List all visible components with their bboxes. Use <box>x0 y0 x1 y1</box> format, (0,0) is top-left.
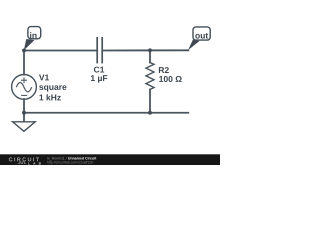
wire left branch upper (in node to V1) <box>23 51 25 75</box>
wire left branch lower (V1 to bottom wire) <box>23 99 25 113</box>
node out flag <box>188 27 210 50</box>
label R2 <box>159 67 169 73</box>
label C1 value 1 uF <box>91 75 107 83</box>
node junction dot bottom-right at R2 <box>148 111 152 115</box>
ground <box>13 122 36 132</box>
svg-text:http://circuitlab.com/c2zwf12b: http://circuitlab.com/c2zwf12b <box>47 161 94 165</box>
voltage source V1 <box>12 75 37 100</box>
footer CircuitLab logo <box>9 157 41 164</box>
node A junction dot top-left <box>22 48 26 52</box>
wire bottom <box>24 112 188 114</box>
label V1 value square <box>39 85 66 91</box>
wire resistor bottom lead <box>149 90 151 113</box>
node in flag <box>24 27 41 51</box>
label R2 value 100 Ohm <box>159 76 181 82</box>
node junction dot bottom-left <box>22 111 26 115</box>
capacitor C1 <box>97 37 102 63</box>
node junction dot top-right at R2 <box>148 48 152 52</box>
wire ground stub <box>23 113 25 122</box>
wire top-left (in node to capacitor) <box>24 50 96 52</box>
label C1 <box>94 67 104 73</box>
wire resistor top lead <box>149 50 151 62</box>
footer bar <box>0 154 220 165</box>
wire top-right (capacitor to out node) <box>103 49 188 51</box>
resistor R2 <box>146 63 154 90</box>
label V1 <box>39 75 49 81</box>
label V1 value 1 kHz <box>39 94 60 100</box>
